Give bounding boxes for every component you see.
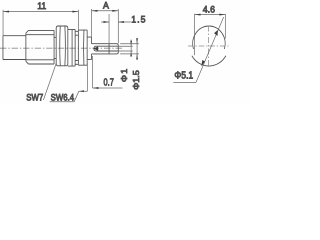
phi5.1 leader diagonal (196, 17, 224, 83)
dim 11 extension left (2, 10, 4, 36)
crimp sleeve outer (26, 30, 54, 64)
svg-text:Φ1.5: Φ1.5 (132, 70, 142, 90)
phi5.1 arrow lower (201, 60, 205, 66)
svg-text:0.7: 0.7 (104, 76, 114, 88)
neck (54, 37, 56, 58)
dim A extension left (90, 9, 92, 38)
right view v centerline (208, 26, 210, 68)
threaded bushing (75, 31, 78, 64)
dim 1.5 arrow right (118, 21, 124, 23)
dim A arrow left (91, 10, 97, 12)
crimp sleeve inner lines (26, 35, 54, 60)
dim A extension right (117, 9, 119, 43)
slot arrow (93, 46, 98, 50)
dim 0.7 arrow (93, 87, 99, 89)
svg-text:1.5: 1.5 (131, 14, 145, 24)
dim A extension mid (108, 14, 110, 43)
dim 11 arrow right (72, 11, 78, 13)
dim 1.5 arrow left (104, 21, 110, 23)
label SW6.4 underline (50, 101, 75, 103)
front bushing (87, 37, 91, 60)
phi5.1 underline (173, 82, 196, 84)
dielectric face edge (108, 44, 110, 54)
svg-text:4.6: 4.6 (203, 4, 215, 14)
leader SW6.4 arrow (79, 90, 84, 92)
dim 0.7 extension (92, 56, 94, 88)
svg-text:SW7: SW7 (26, 92, 43, 103)
contact slot (94, 46, 118, 51)
hex nut SW7 (56, 26, 68, 66)
dim 11 line (3, 11, 78, 13)
right view hex silhouette bottom arc (192, 56, 226, 66)
phi1.5 arrow bottom (136, 54, 138, 60)
leader SW6.4 (74, 63, 87, 102)
contact tube phi1.5 (91, 44, 118, 54)
svg-text:SW6.4: SW6.4 (51, 92, 75, 103)
dim A arrow right (112, 10, 118, 12)
hex nut facet curves (60, 26, 66, 66)
phi1 arrow top (130, 41, 132, 47)
svg-text:Φ1: Φ1 (119, 68, 129, 83)
washer 1 (68, 29, 72, 66)
svg-text:11: 11 (37, 1, 46, 11)
flat left (194, 14, 196, 55)
svg-text:Φ5.1: Φ5.1 (174, 70, 193, 81)
nut SW6.4 facet line (83, 30, 85, 65)
right view dielectric circle (open bottom) (193, 26, 226, 49)
phi1.5 dim line (136, 38, 138, 60)
dim 11 extension right (77, 10, 79, 30)
dim 4.6 arrow left (195, 14, 201, 16)
phi1 extension lines (119, 46, 133, 51)
dim 4.6 arrow right (219, 14, 225, 16)
leader SW7 (43, 62, 56, 100)
dim 4.6 line (195, 14, 226, 16)
svg-text:A: A (103, 0, 110, 10)
phi1 dim line (130, 40, 132, 57)
right view h centerline (188, 45, 228, 47)
nut SW6.4 (78, 30, 87, 65)
dim 0.7 line (93, 87, 123, 89)
cable barrel rect (3, 36, 26, 60)
phi1.5 extension lines (120, 44, 139, 54)
dim A line (91, 10, 118, 12)
flat right (224, 14, 226, 39)
phi5.1 arrow upper (214, 30, 218, 36)
phi1 arrow bottom (130, 51, 132, 57)
washer 2 (72, 29, 75, 66)
centerline left view (0, 47, 123, 49)
dim 11 arrow left (3, 11, 9, 13)
dim 1.5 line left part (101, 21, 131, 23)
phi1.5 arrow top (136, 38, 138, 44)
